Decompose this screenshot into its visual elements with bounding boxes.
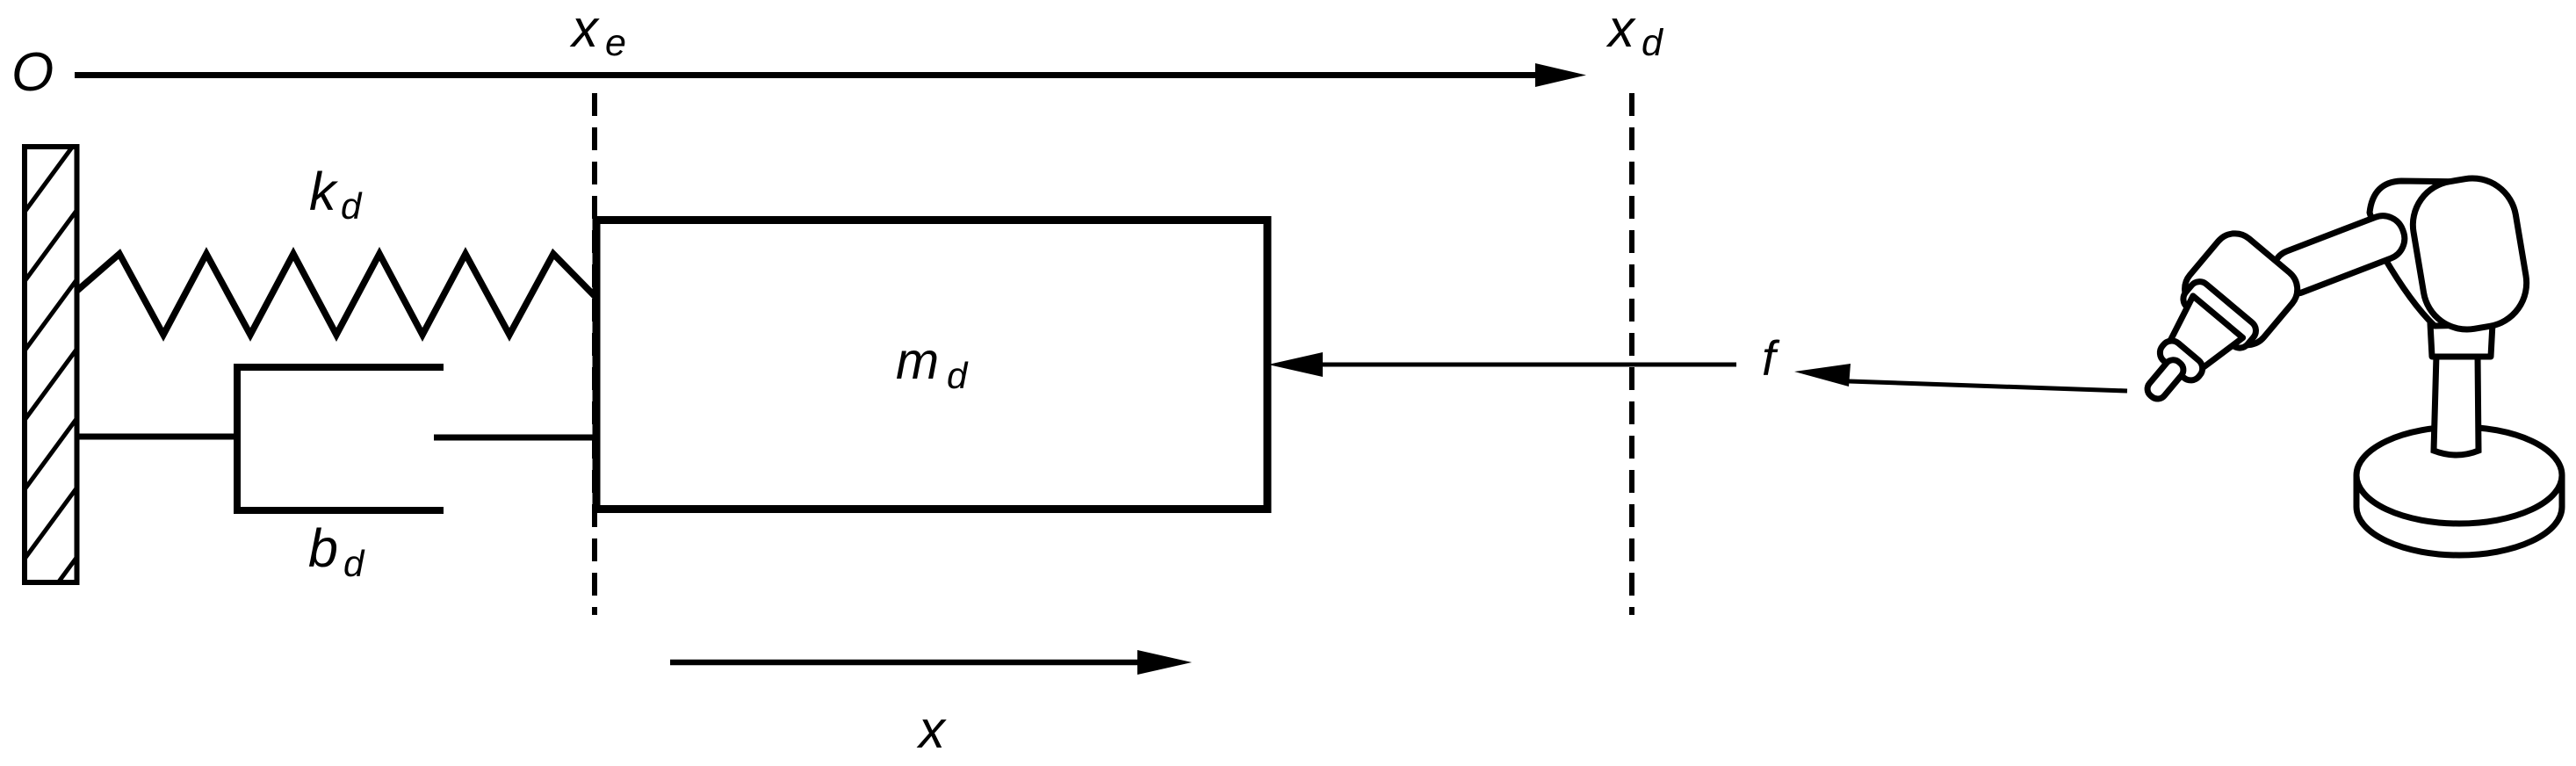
label x <box>916 700 947 759</box>
force arrow f acting on mass <box>1268 352 1736 377</box>
robot body face <box>2406 171 2533 336</box>
label b_d <box>308 518 365 584</box>
svg-text:x: x <box>569 0 600 58</box>
robot base disc <box>2356 427 2562 555</box>
dashed line x_e <box>592 93 597 615</box>
damper cylinder b_d <box>237 367 444 510</box>
robot upper arm <box>2267 210 2411 300</box>
svg-text:d: d <box>947 355 969 396</box>
damper piston rod <box>434 435 595 441</box>
wrist collar <box>2179 278 2260 352</box>
svg-text:e: e <box>605 22 626 64</box>
wall fixed support <box>18 132 83 638</box>
svg-text:O: O <box>11 42 54 103</box>
wrist cone <box>2161 296 2243 375</box>
dashed line x_d <box>1629 93 1634 615</box>
svg-text:x: x <box>1605 0 1636 58</box>
svg-text:m: m <box>896 332 939 390</box>
svg-text:d: d <box>341 185 363 227</box>
label x_e <box>569 0 626 64</box>
svg-text:f: f <box>1762 330 1780 386</box>
label k_d <box>309 162 363 227</box>
wrist band <box>2155 336 2206 385</box>
svg-text:d: d <box>343 543 365 584</box>
tool tip <box>2144 357 2187 402</box>
robot wrist assembly <box>2114 225 2306 428</box>
label x_d <box>1605 0 1664 64</box>
svg-text:x: x <box>916 700 947 759</box>
robot column <box>2434 355 2479 455</box>
force arrow from robot tool tip <box>1794 364 2127 391</box>
spring k_d <box>79 254 595 335</box>
robot body housing <box>2370 181 2477 326</box>
svg-text:d: d <box>1642 22 1664 64</box>
robot connector block <box>2430 323 2493 357</box>
wrist housing <box>2176 225 2306 354</box>
displacement arrow x <box>670 650 1192 675</box>
label f <box>1762 330 1780 386</box>
svg-text:b: b <box>308 518 338 578</box>
damper rod from wall <box>77 434 235 440</box>
mass block m_d <box>596 220 1267 509</box>
origin label O <box>11 42 54 103</box>
x-axis reference arrow O to x_d <box>75 63 1586 87</box>
svg-text:k: k <box>309 162 339 221</box>
label m_d <box>896 332 969 396</box>
